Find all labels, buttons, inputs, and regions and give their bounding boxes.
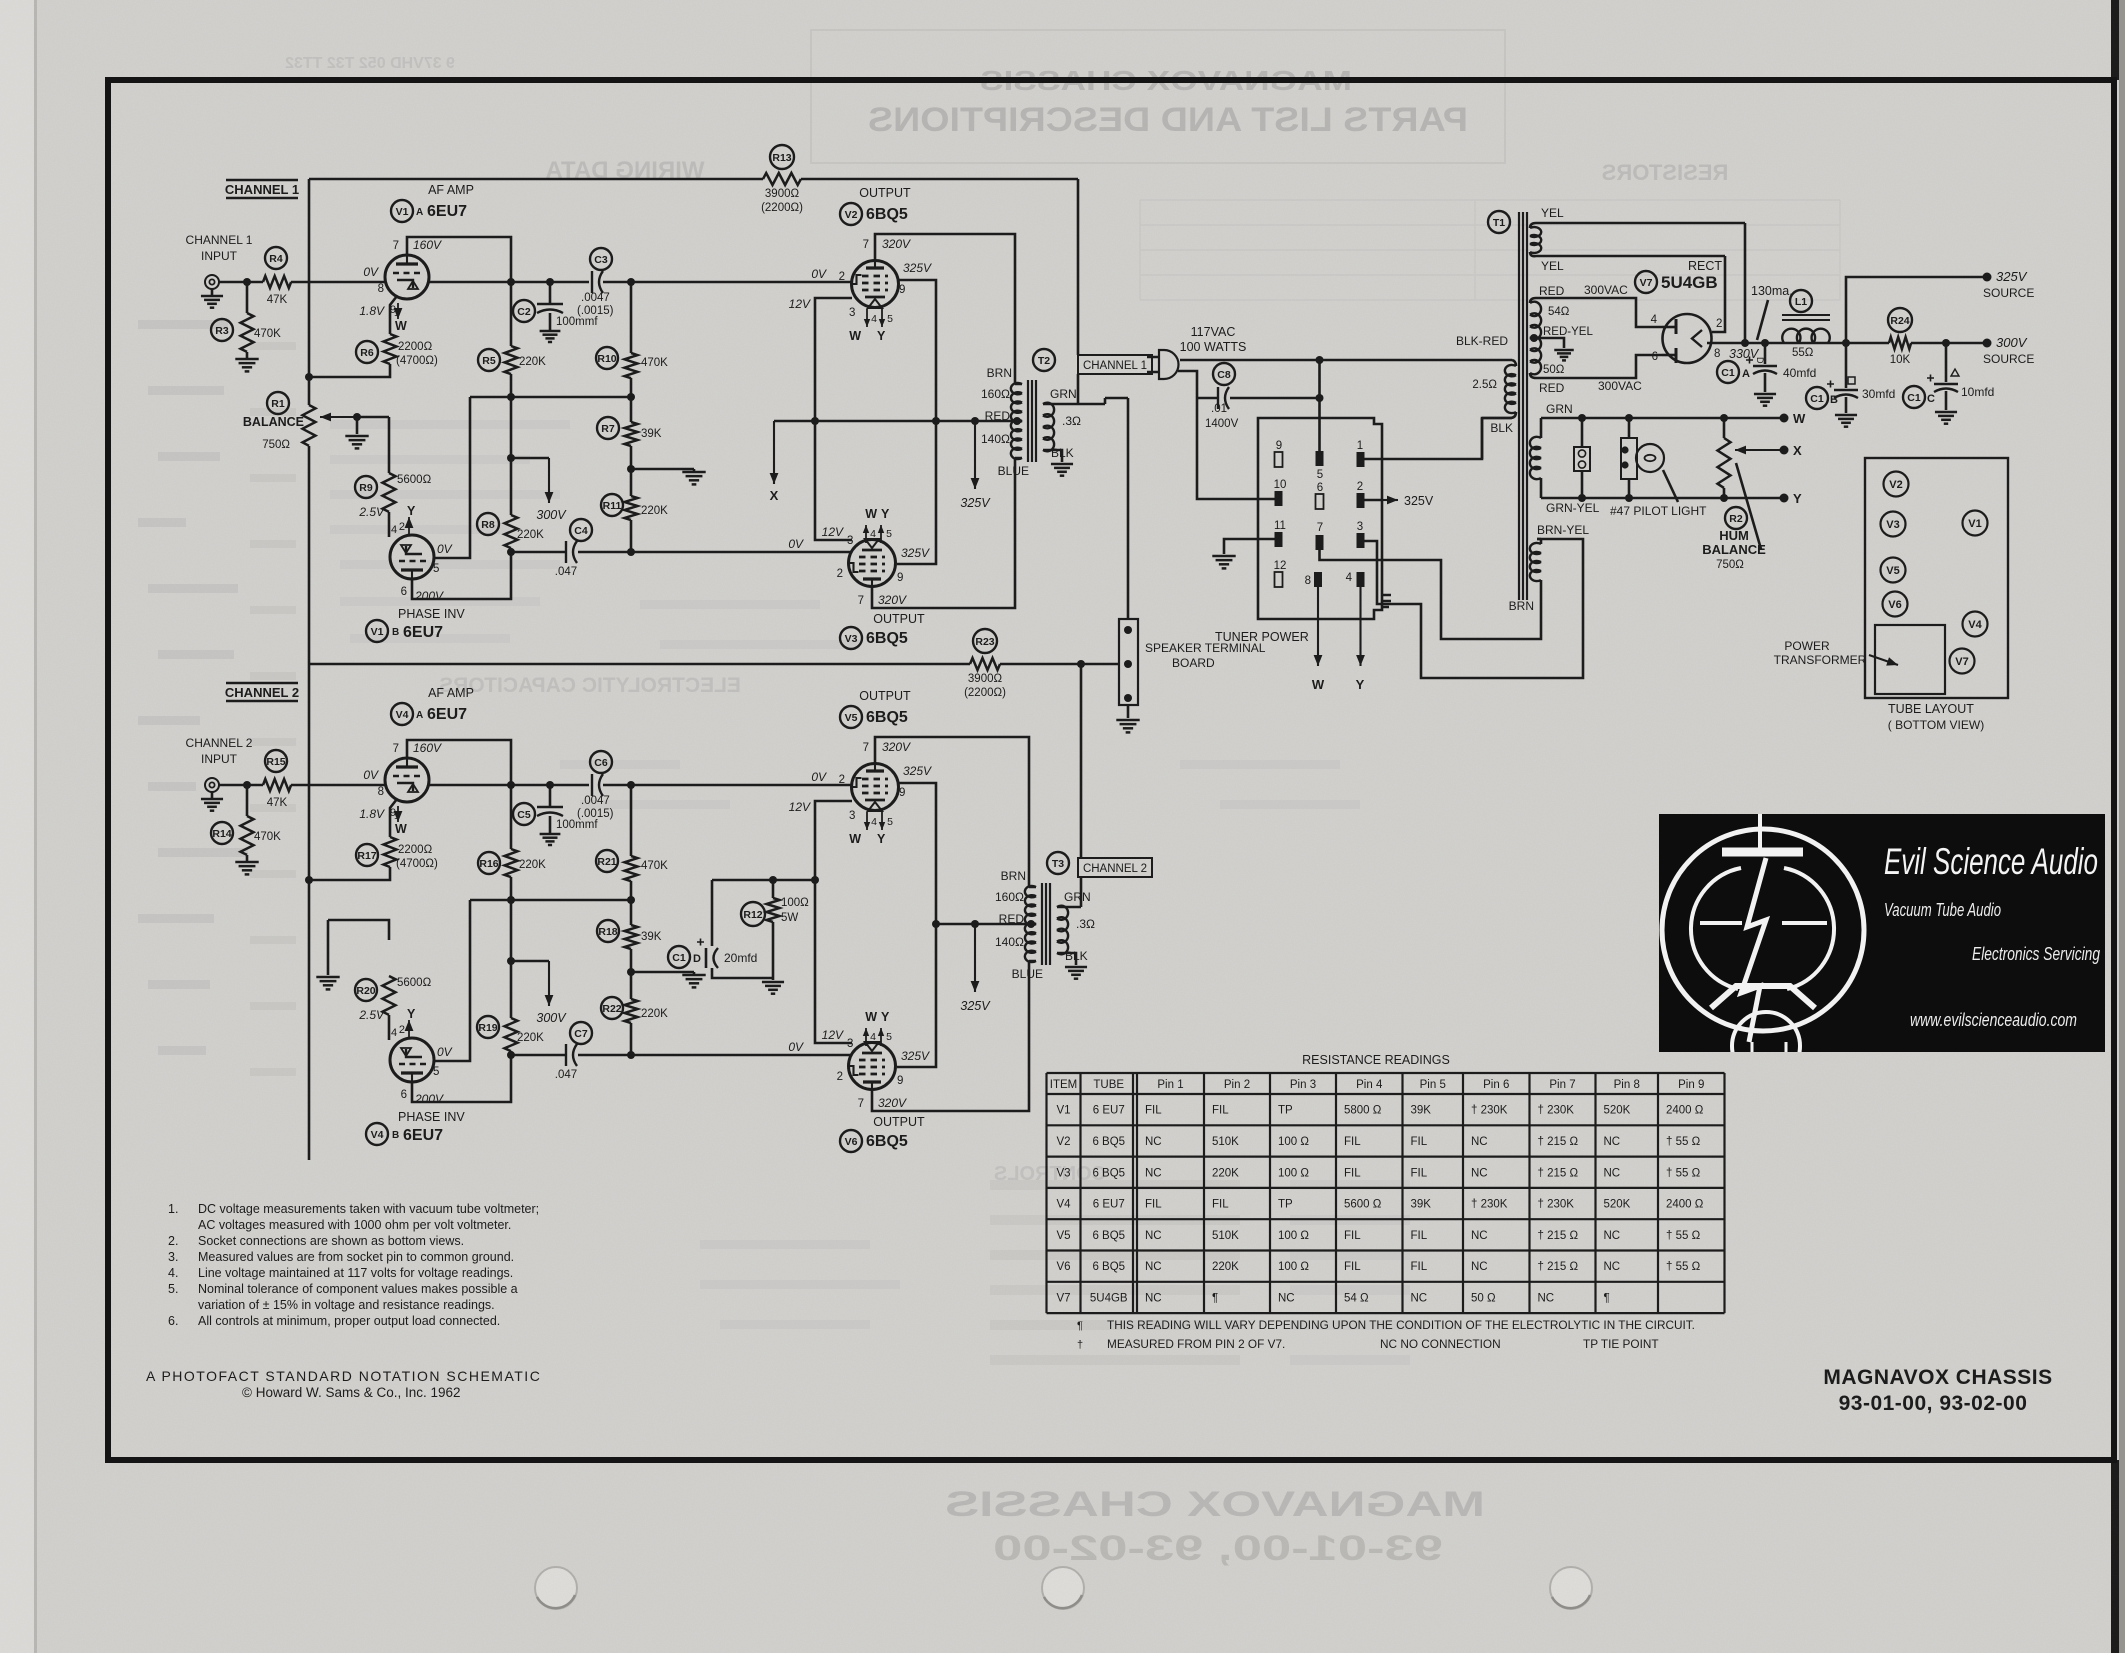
node 325V feed arrow [974,421,976,489]
svg-text:V4: V4 [371,1129,384,1141]
svg-text:All controls at minimum, prop: All controls at minimum, proper output l… [198,1314,500,1328]
svg-text:NC: NC [1145,1167,1162,1179]
svg-text:TUNER POWER: TUNER POWER [1215,630,1309,644]
svg-text:R24: R24 [1890,315,1909,327]
ghost RESISTORS [1602,160,1729,185]
svg-text:1.: 1. [168,1202,178,1216]
svg-text:Pin 8: Pin 8 [1614,1079,1640,1091]
wire V3 plate to T2 BLUE [872,458,1015,608]
svg-text:6 BQ5: 6 BQ5 [1092,1167,1125,1179]
wire board top lead [1127,398,1130,619]
svg-text:A: A [416,710,423,721]
svg-text:325V: 325V [903,261,932,275]
svg-text:NC: NC [1411,1292,1428,1304]
logo plate bar [1722,848,1803,857]
svg-text:Evil Science Audio: Evil Science Audio [1884,841,2098,882]
ghost CONTROLS [994,1163,1106,1185]
potentiometer R1 BALANCE 750Ω [303,405,316,446]
capacitor C7 .047 [511,1054,631,1057]
ghost title block [811,30,1505,163]
wire ch1 left bus [308,179,311,664]
svg-text:V1: V1 [1056,1105,1070,1117]
ghost ELECTROLYTIC CAPACITORS [439,674,741,697]
svg-text:GRN: GRN [1050,387,1077,401]
resistor R7 39K [630,397,633,422]
wire V4B cathode lead [412,1055,511,1102]
svg-text:0V: 0V [811,770,827,784]
svg-text:SOURCE: SOURCE [1983,352,2034,366]
wire V1B plate lead [434,397,470,558]
ground (C1C) [1935,411,1957,414]
svg-text:Pin 2: Pin 2 [1224,1079,1250,1091]
svg-text:0V: 0V [363,768,379,782]
svg-text:2: 2 [837,568,843,580]
svg-text:Pin 1: Pin 1 [1157,1079,1183,1091]
resistor R21 470K [630,785,633,856]
wire V5 V6 screen bus [897,783,936,1067]
svg-text:2.5Ω: 2.5Ω [1472,379,1497,391]
ghost left margin column [138,320,228,329]
wire ch2 lower coupling [631,1054,852,1057]
ground (HV center tap) [1554,349,1574,352]
svg-text:T3: T3 [1052,858,1064,870]
svg-text:† 55 Ω: † 55 Ω [1666,1230,1701,1242]
svg-text:2: 2 [839,774,845,786]
resistor R11 220K [625,496,638,520]
node V7 plate pin6 [1662,354,1676,357]
svg-text:OUTPUT: OUTPUT [873,1115,925,1129]
wire ch1 plate node rail [470,396,631,399]
svg-text:DC voltage measurements taken: DC voltage measurements taken with vacuu… [198,1202,539,1216]
resistor R15 47K [263,779,291,791]
svg-text:RED: RED [985,409,1011,423]
wire wiper to R9 [388,417,391,473]
svg-text:300VAC: 300VAC [1598,379,1642,393]
wire channel divider rail [309,663,1119,666]
wire R5 chain [510,877,513,1018]
wire R9 to V1B [388,512,391,537]
tuner power connector outline [1258,418,1382,619]
ground (R1 wiper) [356,417,359,434]
svg-text:NC: NC [1145,1292,1162,1304]
svg-text:5: 5 [433,1066,439,1078]
transformer T3 label [1047,852,1069,874]
svg-text:© Howard W. Sams & Co., Inc. 1: © Howard W. Sams & Co., Inc. 1962 [242,1385,461,1400]
svg-text:47K: 47K [267,797,288,809]
svg-text:R14: R14 [212,828,231,840]
capacitor C1A 40mfd [1764,343,1767,364]
capacitor C5 100mmf [549,785,552,806]
svg-text:CHANNEL 2: CHANNEL 2 [186,736,253,750]
svg-text:R2: R2 [1729,513,1743,525]
svg-text:6 BQ5: 6 BQ5 [1092,1261,1125,1273]
svg-text:Socket connections are shown a: Socket connections are shown as bottom v… [198,1234,464,1248]
svg-text:X: X [1793,443,1802,458]
transformer T1 HV winding RED [1530,302,1541,375]
svg-text:2: 2 [839,271,845,283]
capacitor C2 100mmf [549,282,552,303]
svg-text:† 230K: † 230K [1538,1105,1575,1117]
svg-text:6EU7: 6EU7 [403,1127,443,1144]
svg-text:7: 7 [858,595,864,607]
svg-text:11: 11 [1274,520,1286,532]
svg-text:¶: ¶ [1604,1292,1610,1304]
tube layout V7 [1950,649,1975,674]
resistor R23 3900Ω [970,658,1000,670]
resistor R22 220K [625,999,638,1023]
svg-text:R20: R20 [356,985,375,997]
svg-text:R1: R1 [271,398,285,410]
speaker terminal board [1119,619,1138,705]
svg-text:R18: R18 [598,926,617,938]
svg-text:RED: RED [999,912,1025,926]
svg-text:POWER: POWER [1784,639,1830,653]
svg-text:0V: 0V [437,542,453,556]
svg-text:BLK-RED: BLK-RED [1456,334,1508,348]
svg-text:† 215 Ω: † 215 Ω [1538,1261,1579,1273]
svg-text:C5: C5 [517,809,531,821]
wire V1B pin2 arrow Y [408,517,410,536]
svg-text:7: 7 [393,240,399,252]
svg-text:V6: V6 [845,1136,858,1148]
svg-text:100 Ω: 100 Ω [1278,1230,1309,1242]
svg-text:2400 Ω: 2400 Ω [1666,1105,1704,1117]
svg-text:FIL: FIL [1344,1230,1361,1242]
svg-text:325V: 325V [960,999,991,1013]
wire board bottom lead [1127,705,1130,718]
svg-text:V7: V7 [1955,656,1968,668]
svg-text:4: 4 [1346,572,1353,584]
wire V5 pin3 cathode bus [815,801,852,1043]
svg-text:200V: 200V [414,589,444,603]
svg-text:Y: Y [877,329,886,343]
svg-text:OUTPUT: OUTPUT [859,186,911,200]
wire AC line neutral [1178,371,1197,398]
svg-text:300V: 300V [536,1011,567,1025]
svg-text:6: 6 [1317,482,1323,494]
svg-text:5W: 5W [781,912,798,924]
svg-text:470K: 470K [641,860,668,872]
transformer T1 6.3V winding GRN [1530,437,1541,479]
svg-text:0V: 0V [811,267,827,281]
svg-text:BLUE: BLUE [998,464,1029,478]
scan grain [0,0,1,1]
svg-text:54Ω: 54Ω [1548,306,1570,318]
tube V4B 6EU7 PHASE INV [390,1038,434,1082]
svg-text:SOURCE: SOURCE [1983,286,2034,300]
svg-text:FIL: FIL [1344,1136,1361,1148]
ghost middle verso tables [330,420,570,429]
svg-text:R12: R12 [743,909,762,921]
wire V7 pin8 output [1707,342,1889,345]
svg-text:Pin 6: Pin 6 [1483,1079,1509,1091]
svg-text:(2200Ω): (2200Ω) [964,687,1006,699]
svg-text:(2200Ω): (2200Ω) [761,202,803,214]
svg-text:C1: C1 [1810,393,1824,405]
svg-text:THIS READING WILL VARY DEPENDI: THIS READING WILL VARY DEPENDING UPON TH… [1107,1318,1695,1332]
svg-text:40mfd: 40mfd [1783,366,1816,380]
svg-text:variation of ± 15% in voltage: variation of ± 15% in voltage and resist… [198,1298,495,1312]
svg-text:C: C [1927,393,1935,405]
svg-text:4.: 4. [168,1266,178,1280]
svg-text:TP TIE POINT: TP TIE POINT [1583,1337,1659,1351]
svg-text:200V: 200V [414,1092,444,1106]
svg-text:325V: 325V [1404,494,1434,508]
wire R2 wiper to X [1735,449,1781,451]
resistor R12 100Ω 5W [772,880,775,898]
transformer T1 filament winding YEL [1530,227,1541,253]
svg-text:V1: V1 [371,626,384,638]
transformer T2 label [1033,349,1055,371]
svg-text:W: W [1312,677,1325,692]
svg-text:AF AMP: AF AMP [428,183,474,197]
svg-text:NC: NC [1604,1167,1621,1179]
svg-text:NC: NC [1145,1261,1162,1273]
svg-text:220K: 220K [519,356,546,368]
svg-text:9: 9 [897,1075,903,1087]
tube layout V1 [1963,511,1988,536]
svg-text:FIL: FIL [1212,1199,1229,1211]
svg-text:470K: 470K [254,328,281,340]
svg-text:BALANCE: BALANCE [243,415,304,429]
tube layout V3 [1881,512,1906,537]
svg-text:R7: R7 [601,423,615,435]
resistor R24 10K [1889,337,1911,349]
wire T3 BLK to ground [1057,953,1076,965]
svg-text:V4: V4 [1056,1199,1071,1211]
svg-text:.047: .047 [555,1069,577,1081]
svg-text:YEL: YEL [1541,259,1564,273]
svg-text:BRN: BRN [987,366,1012,380]
tube layout power transformer square [1875,625,1945,694]
svg-text:AF AMP: AF AMP [428,686,474,700]
svg-text:W: W [849,832,861,846]
svg-text:300V: 300V [536,508,567,522]
svg-text:100mmf: 100mmf [556,819,598,831]
svg-text:PHASE INV: PHASE INV [398,1110,465,1124]
wire ch1 divider ground [631,468,694,471]
wire V1A cathode lead [390,296,397,334]
wire V2 pin3 cathode bus [815,298,852,540]
svg-text:INPUT: INPUT [201,249,238,263]
svg-text:5600Ω: 5600Ω [397,977,432,989]
ground (input jack) [211,289,214,296]
wire V4A cathode lead [390,799,397,837]
svg-text:V5: V5 [1056,1230,1070,1242]
svg-text:160V: 160V [413,238,442,252]
svg-text:( BOTTOM VIEW): ( BOTTOM VIEW) [1888,718,1984,732]
ghost bottom center table [990,1180,1240,1190]
svg-text:PHASE INV: PHASE INV [398,607,465,621]
wire V4B plate lead [434,900,470,1061]
node CHANNEL 1 section label [226,179,298,181]
svg-text:MEASURED FROM PIN 2 OF V7.: MEASURED FROM PIN 2 OF V7. [1107,1337,1285,1351]
wire B+ rail to T2 RED tap [815,420,1022,423]
svg-text:0V: 0V [363,265,379,279]
svg-text:325V: 325V [903,764,932,778]
svg-text:1: 1 [394,308,400,319]
svg-text:NC: NC [1145,1136,1162,1148]
resistor R5 220K [505,346,518,374]
wire V5 plate to T3 BRN [875,737,1029,887]
wire 6.3V W rail [1541,417,1781,420]
svg-text:.0047: .0047 [581,795,610,807]
svg-text:FIL: FIL [1411,1261,1428,1273]
svg-text:TUBE: TUBE [1093,1079,1124,1091]
svg-text:6BQ5: 6BQ5 [866,1133,908,1150]
svg-text:V2: V2 [1889,479,1902,491]
node V5 pins 4 5 arrows W Y [866,812,868,830]
punch hole [1042,1567,1084,1609]
svg-text:OUTPUT: OUTPUT [873,612,925,626]
svg-text:CHANNEL 1: CHANNEL 1 [186,233,253,247]
svg-text:HUM: HUM [1719,528,1749,543]
svg-text:510K: 510K [1212,1136,1239,1148]
svg-text:R4: R4 [269,253,283,265]
svg-text:3: 3 [1357,521,1363,533]
svg-text:BLK: BLK [1490,421,1513,435]
wire pin3 to BRN-YEL [1365,539,1584,678]
svg-text:9: 9 [899,284,905,296]
svg-text:¶: ¶ [1077,1320,1083,1332]
svg-text:160V: 160V [413,741,442,755]
svg-text:T1: T1 [1493,217,1505,229]
svg-text:B: B [392,1130,399,1141]
svg-text:Y: Y [877,832,886,846]
svg-text:W: W [865,507,877,521]
wire ch2 cathode bias network top [712,879,815,882]
svg-text:470K: 470K [641,357,668,369]
wire V2 plate to T2 BRN [875,234,1015,384]
svg-text:V6: V6 [1056,1261,1070,1273]
ground (R14) [235,861,258,864]
wire R1 wiper [320,416,357,418]
svg-text:RESISTANCE READINGS: RESISTANCE READINGS [1302,1053,1450,1067]
ground (ch1 divider) [693,469,696,471]
svg-text:100 Ω: 100 Ω [1278,1136,1309,1148]
ghost WIRING DATA [545,157,704,184]
svg-text:Y: Y [881,1010,890,1024]
svg-text:8: 8 [378,786,384,798]
svg-text:† 215 Ω: † 215 Ω [1538,1230,1579,1242]
svg-text:V3: V3 [845,633,858,645]
svg-text:W: W [395,319,407,333]
svg-text:8: 8 [1305,575,1311,587]
svg-text:B: B [1830,394,1838,406]
svg-text:C1: C1 [672,952,686,964]
svg-text:.0047: .0047 [581,292,610,304]
svg-text:GRN: GRN [1546,402,1573,416]
node CHANNEL 2 section label [226,682,298,684]
svg-text:† 55 Ω: † 55 Ω [1666,1167,1701,1179]
svg-text:R10: R10 [597,353,616,365]
svg-text:470K: 470K [254,831,281,843]
svg-text:6 EU7: 6 EU7 [1093,1199,1125,1211]
wire pin11 to ground [1224,539,1275,554]
svg-text:L1: L1 [1795,296,1807,308]
transformer T2 primary [1011,383,1022,459]
svg-text:BRN: BRN [1001,869,1026,883]
svg-text:6 BQ5: 6 BQ5 [1092,1136,1125,1148]
svg-text:220K: 220K [519,859,546,871]
transformer T1 label [1488,211,1510,233]
svg-text:5.: 5. [168,1282,178,1296]
svg-text:2400 Ω: 2400 Ω [1666,1199,1704,1211]
wire V2 V3 screen bus [897,280,936,564]
logo plate lead [1758,814,1762,852]
svg-text:5U4GB: 5U4GB [1661,273,1718,292]
node T1 HV center tap RED-YEL [1530,334,1538,342]
resistor R4 47K [263,276,291,288]
svg-text:V2: V2 [845,209,858,221]
svg-text:V5: V5 [845,712,858,724]
svg-text:.3Ω: .3Ω [1062,414,1081,428]
resistor R18 39K [630,900,633,925]
svg-text:Y: Y [1793,491,1802,506]
svg-text:RED: RED [1539,381,1565,395]
svg-text:220K: 220K [641,1008,668,1020]
wire V1B cathode lead [412,552,511,599]
capacitor C1D 20mfd [711,880,714,946]
svg-text:Pin 4: Pin 4 [1356,1079,1383,1091]
svg-text:6 BQ5: 6 BQ5 [1092,1230,1125,1242]
svg-text:2200Ω: 2200Ω [398,844,433,856]
ground (ch2 bias) [316,976,339,979]
svg-text:NC: NC [1604,1230,1621,1242]
svg-text:6 EU7: 6 EU7 [1093,1105,1125,1117]
svg-text:Measured values are from socke: Measured values are from socket pin to c… [198,1250,514,1264]
svg-text:C1: C1 [1721,367,1735,379]
svg-text:510K: 510K [1212,1230,1239,1242]
svg-text:8: 8 [1714,348,1720,360]
ground (input jack) [211,792,214,799]
svg-text:V2: V2 [1056,1136,1070,1148]
ground (ch2 divider) [693,972,696,974]
transformer T3 core [1041,883,1043,965]
svg-text:6EU7: 6EU7 [427,706,467,723]
svg-text:NC NO CONNECTION: NC NO CONNECTION [1380,1337,1501,1351]
ground (C1B) [1835,414,1857,417]
svg-text:FIL: FIL [1212,1105,1229,1117]
ground (speaker board) [1116,719,1139,722]
svg-text:6BQ5: 6BQ5 [866,206,908,223]
svg-text:9: 9 [1276,440,1282,452]
svg-text:Y: Y [1356,677,1365,692]
svg-text:BOARD: BOARD [1172,656,1215,670]
wire ch2 plate node rail [470,899,631,902]
terminal W [1780,414,1789,423]
ground (R3) [235,358,258,361]
svg-text:0V: 0V [788,1040,804,1054]
svg-text:6BQ5: 6BQ5 [866,709,908,726]
svg-text:140Ω: 140Ω [995,935,1024,949]
svg-text:FIL: FIL [1411,1136,1428,1148]
svg-text:6: 6 [1652,351,1658,363]
wire pin1 to T1 BLK [1365,418,1513,459]
terminal Y [1780,494,1789,503]
wire V7 pin2 filament lead [1712,256,1725,332]
svg-text:4: 4 [870,528,876,540]
svg-text:V7: V7 [1056,1292,1070,1304]
svg-text:www.evilscienceaudio.com: www.evilscienceaudio.com [1910,1010,2077,1030]
ground (T2 BLK) [1051,463,1073,466]
svg-text:39K: 39K [1411,1199,1432,1211]
svg-text:5: 5 [1317,469,1323,481]
wire 6.3V Y rail [1541,497,1781,500]
wire R20 to V4B [388,1015,391,1040]
svg-text:100mmf: 100mmf [556,316,598,328]
svg-text:V4: V4 [1968,619,1982,631]
